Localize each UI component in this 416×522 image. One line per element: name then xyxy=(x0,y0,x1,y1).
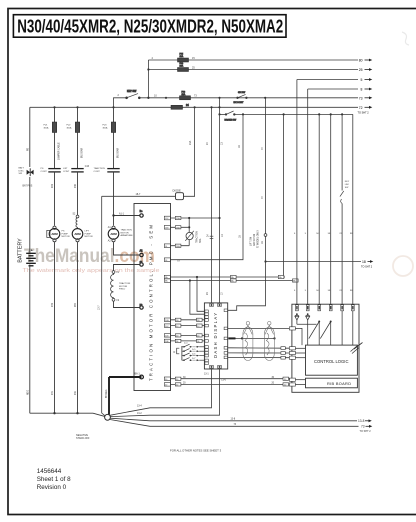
dash bottom pin 2 xyxy=(218,365,222,368)
transistor symbol pin3 xyxy=(309,321,320,346)
svg-text:6: 6 xyxy=(294,233,296,235)
PS pump motor terminal A1 xyxy=(53,226,56,229)
svg-text:LIFT: LIFT xyxy=(85,231,90,233)
svg-text:25: 25 xyxy=(192,67,195,70)
svg-text:10: 10 xyxy=(154,95,157,98)
svg-text:SX SW: SX SW xyxy=(238,92,246,94)
PS contactor tips xyxy=(48,169,60,172)
svg-text:13-2: 13-2 xyxy=(137,413,142,415)
pmc pin box 335 xyxy=(164,334,170,337)
svg-text:KEY: KEY xyxy=(345,181,350,183)
svg-text:18: 18 xyxy=(238,235,241,238)
junction dot bus col B bottom xyxy=(53,412,55,414)
thick shield bar xyxy=(228,337,235,339)
svg-text:300A: 300A xyxy=(44,126,49,129)
dash left pin 350 xyxy=(205,349,208,352)
diode D1 box xyxy=(176,193,184,200)
battery symbol xyxy=(26,253,36,265)
svg-text:DIODE: DIODE xyxy=(173,188,181,192)
label PS PUMP MOTOR xyxy=(62,231,71,239)
wire vertical x243 brake line to pmc lift sw pin xyxy=(171,114,244,259)
svg-text:ARMATURE: ARMATURE xyxy=(121,234,134,237)
svg-text:ARM: ARM xyxy=(51,232,58,236)
wire pin6 into logic xyxy=(352,311,354,345)
wire label box 280b xyxy=(293,279,299,282)
svg-text:TRACTION: TRACTION xyxy=(94,167,106,170)
wire vertical x265 key line down xyxy=(228,98,266,310)
wire label box 384a xyxy=(175,383,181,386)
svg-text:P22: P22 xyxy=(52,183,54,188)
assembly left pin 353 xyxy=(289,351,295,354)
arrow 73 xyxy=(359,96,373,100)
fan wire 13-2 to dash pin2 xyxy=(110,369,219,417)
assembly pin blob 3 xyxy=(319,306,321,309)
wire line 80 xyxy=(148,59,358,61)
fuse F3 on key line xyxy=(180,91,191,99)
pmc pin box 218 xyxy=(164,216,170,220)
svg-text:The watermark only appears on: The watermark only appears on the sample xyxy=(23,268,160,274)
svg-text:FOR ALL OTHER NOTES SEE SHEET: FOR ALL OTHER NOTES SEE SHEET 3 xyxy=(170,449,222,453)
junction dot B+ col D xyxy=(112,214,114,216)
wire pmc to rib 380 xyxy=(170,379,289,380)
label LIFT PUMP MOTOR xyxy=(85,231,94,239)
svg-text:PS: PS xyxy=(41,168,44,170)
column D wire to motor xyxy=(113,172,115,226)
wire vertical pin5 lower xyxy=(341,204,343,305)
column D wire to contactor xyxy=(113,133,115,169)
junction dot bus diode branch xyxy=(194,106,196,108)
svg-text:RIB BOARD: RIB BOARD xyxy=(327,381,351,386)
svg-text:72: 72 xyxy=(359,106,363,110)
pmc right pin row: wire 218 xyxy=(170,217,218,219)
svg-text:JUMPER CABLE: JUMPER CABLE xyxy=(58,142,61,160)
svg-text:18: 18 xyxy=(238,145,241,148)
diode symbol pin1 xyxy=(295,313,299,324)
svg-text:P60: P60 xyxy=(75,302,77,307)
break zigzag at logic edge xyxy=(351,343,363,352)
junction dot brake line x219 xyxy=(218,113,220,115)
assembly pin blob 2 xyxy=(307,306,309,309)
svg-text:18-7: 18-7 xyxy=(136,193,141,196)
svg-text:20D: 20D xyxy=(165,336,169,338)
wire dash right 357 xyxy=(228,356,290,358)
svg-text:D: D xyxy=(174,351,176,354)
svg-text:SW: SW xyxy=(19,173,23,175)
wire 280.5 xyxy=(170,280,298,282)
svg-text:B+: B+ xyxy=(140,211,144,213)
dash right pin 310 xyxy=(224,309,227,312)
pmc pin box 384 xyxy=(164,383,170,386)
arrow 8 xyxy=(361,88,373,92)
svg-text:13: 13 xyxy=(221,142,224,145)
wire key switch line xyxy=(114,98,127,108)
pmc terminal B- xyxy=(140,375,144,379)
connector circle on x265 wire xyxy=(264,234,267,237)
svg-text:BAT POS: BAT POS xyxy=(23,185,33,188)
wire label box 218 xyxy=(175,216,181,219)
svg-text:13: 13 xyxy=(221,234,224,237)
arrow 80 xyxy=(359,59,373,63)
lift contactor tips xyxy=(71,169,83,172)
wire label box 353c xyxy=(281,352,285,355)
svg-text:24: 24 xyxy=(207,292,209,295)
svg-text:MOTOR: MOTOR xyxy=(119,286,128,288)
junction dot shield line b xyxy=(273,337,275,339)
svg-text:TRACTION: TRACTION xyxy=(121,229,133,232)
wire label box 341a xyxy=(175,339,181,342)
thick B- wire horizontal xyxy=(109,376,142,378)
junction dot brake line x330 xyxy=(330,113,332,115)
lift pump motor xyxy=(72,229,83,240)
junction dot brake line x283 xyxy=(283,113,285,115)
wire vertical x211 bus to dash display xyxy=(211,107,213,303)
svg-text:C43: C43 xyxy=(85,166,90,168)
pmc pin box 280 xyxy=(164,279,170,282)
negative stand-off node xyxy=(105,414,111,420)
junction dot 280 branch xyxy=(189,279,191,281)
svg-text:MOTOR: MOTOR xyxy=(121,232,130,234)
twisted pair 2 drain Y xyxy=(265,325,274,334)
svg-text:ARM: ARM xyxy=(110,232,117,236)
svg-text:80: 80 xyxy=(359,59,363,63)
wire label box 384b xyxy=(283,383,289,386)
assembly pin blob 6 xyxy=(352,306,354,309)
PS pump motor brush box xyxy=(47,230,50,237)
dash left pin 317 xyxy=(205,316,208,319)
lift motor terminal S2 xyxy=(76,215,79,218)
wire pmc to dash 325 xyxy=(170,325,205,327)
label KEY LIM SW xyxy=(345,181,350,189)
svg-text:D-7: D-7 xyxy=(192,358,196,360)
dash switch 3 xyxy=(182,353,205,357)
pmc terminal B+ xyxy=(140,211,144,217)
diode link line xyxy=(297,323,317,325)
dash left pin 311 xyxy=(205,310,208,313)
dash switch rail xyxy=(181,346,183,360)
fuse F5 on line 80 xyxy=(178,54,189,62)
pmc pin box 245 xyxy=(164,244,170,248)
dash switch 1 xyxy=(182,344,205,348)
wire label box 277b xyxy=(278,275,284,278)
column B wire lower xyxy=(54,242,56,413)
wire label box 357c xyxy=(281,356,285,359)
svg-text:15: 15 xyxy=(192,57,195,60)
wire 277 xyxy=(170,276,283,278)
pmc pin box 259 xyxy=(164,258,170,262)
pmc terminal A2 xyxy=(140,250,144,257)
svg-text:24: 24 xyxy=(206,142,209,145)
svg-text:13-8: 13-8 xyxy=(231,419,236,421)
junction dot solenoid top xyxy=(188,217,190,219)
traction motor control PMC box xyxy=(134,204,171,391)
column C wire to contactor xyxy=(77,133,79,169)
label fuse D xyxy=(103,125,108,130)
svg-text:10A: 10A xyxy=(180,55,184,58)
junction dot key line x219 xyxy=(218,97,220,99)
assembly top pin 1 xyxy=(296,305,299,311)
dash right pin 338 xyxy=(224,337,227,340)
junction dot bus col D xyxy=(112,106,114,108)
svg-text:A1: A1 xyxy=(108,226,112,229)
svg-text:P31: P31 xyxy=(52,390,54,395)
fuse F4 on line 25 xyxy=(178,63,189,71)
wire S1 from PMC to field xyxy=(114,265,140,271)
svg-text:BATTERY: BATTERY xyxy=(18,238,24,263)
wire label box 341b xyxy=(197,339,203,342)
wire battery bus line 72 xyxy=(30,106,171,108)
svg-text:73: 73 xyxy=(361,425,365,429)
wire left pin 328 into logic xyxy=(295,328,302,345)
svg-text:24: 24 xyxy=(186,104,189,107)
svg-text:CONT: CONT xyxy=(63,171,70,173)
svg-text:B6-1: B6-1 xyxy=(135,372,141,375)
wire brake line after switch xyxy=(235,113,353,115)
fuse column C xyxy=(75,122,79,133)
assembly pin blob 4 xyxy=(330,306,332,309)
dash top pin 2 xyxy=(218,304,222,307)
junction dot shield line a xyxy=(241,337,243,339)
dash left pin 363 xyxy=(205,362,208,365)
twisted pair 2 inner strand xyxy=(266,333,269,355)
svg-text:N30/40/45XMR2, N25/30XMDR2, N5: N30/40/45XMR2, N25/30XMDR2, N50XMA2 xyxy=(17,16,283,36)
junction dot brake line x342 xyxy=(341,113,343,115)
wire 18 line to right arrow xyxy=(266,261,362,263)
svg-text:10A: 10A xyxy=(180,65,184,68)
svg-text:F2: F2 xyxy=(117,300,120,302)
battery disconnect switch xyxy=(27,168,34,176)
wire vertical pin5 upper from brake line xyxy=(341,114,343,190)
key switch xyxy=(126,90,141,99)
twisted pair 1 drain Y xyxy=(244,325,253,334)
dash bottom pin 1 xyxy=(210,365,214,368)
arrow 18 xyxy=(362,260,373,264)
dash left pin 335 xyxy=(205,334,208,337)
dash right pin 357 xyxy=(224,356,227,359)
twisted pair 1 inner strand xyxy=(245,333,248,355)
svg-text:73: 73 xyxy=(262,196,264,199)
watermark big text xyxy=(23,246,160,274)
junction dot bus col C xyxy=(76,106,78,108)
key lift switch xyxy=(340,191,344,204)
junction dot solenoid mid xyxy=(188,226,190,228)
svg-text:ARM: ARM xyxy=(74,232,81,236)
transistor symbol pin4 xyxy=(320,321,331,346)
lift motor terminal A2 xyxy=(76,239,79,242)
svg-text:13: 13 xyxy=(222,292,224,295)
dash pin blob top2 xyxy=(219,304,221,306)
control logic assembly outer box xyxy=(292,304,359,392)
svg-text:6: 6 xyxy=(294,290,296,292)
arrow 5 xyxy=(361,78,373,82)
svg-text:D-6: D-6 xyxy=(192,354,196,356)
svg-text:24: 24 xyxy=(206,234,209,237)
lift motor series coil xyxy=(76,218,78,229)
wire label box 335b xyxy=(197,334,203,337)
svg-text:PS: PS xyxy=(62,231,65,233)
seat switch on 73 line xyxy=(234,92,248,104)
svg-text:TO SHT 2: TO SHT 2 xyxy=(361,266,373,269)
fuse column B xyxy=(52,122,56,133)
column B wire to contactor xyxy=(54,133,56,169)
twisted pair 2 loop xyxy=(264,327,274,361)
wire vertical pin3 from brake line xyxy=(318,114,320,304)
svg-text:25: 25 xyxy=(359,68,363,72)
wire pmc 280 branch to dash pin 314 xyxy=(190,281,205,315)
dash left pin 341 xyxy=(205,340,208,343)
svg-text:5: 5 xyxy=(361,78,363,82)
svg-text:PUMP: PUMP xyxy=(85,233,92,235)
arrow 25 xyxy=(359,68,373,72)
wire dash right 353 xyxy=(228,352,290,354)
wire 245.5 xyxy=(170,245,189,247)
svg-text:5: 5 xyxy=(305,290,307,292)
traction contactor tips xyxy=(107,169,119,172)
svg-text:B6 NEG: B6 NEG xyxy=(106,389,108,398)
wire 13-7 vertical down to negative node xyxy=(102,196,106,416)
brake switch xyxy=(225,111,237,122)
wire pmc to dash 341 xyxy=(170,340,205,342)
field terminal F2 xyxy=(112,298,115,301)
dash pin blob top1 xyxy=(211,304,213,306)
svg-text:CONT: CONT xyxy=(41,171,48,173)
wire line 25 xyxy=(148,69,358,71)
junction dot bus x219 xyxy=(218,106,220,108)
pmc terminal F2 xyxy=(140,305,144,309)
pmc pin box 319 xyxy=(164,318,170,321)
svg-text:BUS BAR: BUS BAR xyxy=(117,148,120,158)
dash switch 4 xyxy=(182,358,205,362)
diode symbol pin2 xyxy=(306,313,310,345)
pmc pin box 341 xyxy=(164,339,170,342)
column A wire to battery xyxy=(29,177,31,253)
junction dot bus col B xyxy=(53,106,55,108)
wire label box 347c xyxy=(281,347,285,350)
solenoid arrow xyxy=(185,231,194,241)
assembly top pin 6 xyxy=(352,305,355,311)
svg-text:DX CONT: DX CONT xyxy=(234,102,245,104)
dash pin blob bottom1 xyxy=(211,366,213,368)
wire label box 320b xyxy=(197,318,203,321)
wire pmc 277 branch to dash pin 311 xyxy=(197,277,205,311)
traction motor armature xyxy=(108,229,119,240)
wire vertical x283 brake line to pmc pin line xyxy=(283,114,285,277)
wire left pin 384 into rib xyxy=(295,384,305,386)
wire vertical x219 key line to dash display xyxy=(219,98,221,303)
svg-text:BATT: BATT xyxy=(19,167,25,170)
svg-text:PUMP: PUMP xyxy=(62,233,69,235)
wire A2 to PMC xyxy=(114,242,140,255)
wire dash right 347 xyxy=(228,347,290,349)
svg-text:300A: 300A xyxy=(67,126,72,129)
svg-text:P32: P32 xyxy=(52,302,54,307)
svg-text:AIR SU SW: AIR SU SW xyxy=(253,233,256,246)
dash left pin 360 xyxy=(205,359,208,362)
svg-text:D-4: D-4 xyxy=(184,342,188,344)
svg-text:D-5: D-5 xyxy=(192,349,196,351)
rib board box xyxy=(306,378,358,388)
fuse column D xyxy=(111,122,115,133)
svg-text:FU3: FU3 xyxy=(103,125,108,127)
dash right pin 347 xyxy=(224,347,227,350)
column D wire upper xyxy=(113,107,115,122)
label fuse C xyxy=(67,125,72,130)
label PS CONT xyxy=(41,168,48,173)
column C wire to S2 xyxy=(77,172,79,215)
dash left pin 356 xyxy=(205,354,208,357)
svg-text:PB: PB xyxy=(28,147,30,151)
wire bus after fuse to right arrow 72 xyxy=(183,106,359,108)
wire vertical pin1 from line 5 xyxy=(296,80,298,305)
wire label box 325b xyxy=(197,324,203,327)
solenoid branch vertical xyxy=(188,218,190,232)
svg-text:P41: P41 xyxy=(75,390,77,395)
svg-text:2: 2 xyxy=(118,94,120,97)
PS pump motor xyxy=(49,229,60,240)
svg-text:A1-1: A1-1 xyxy=(119,212,125,215)
dash left pin 353 xyxy=(205,351,208,354)
svg-text:5: 5 xyxy=(305,233,307,235)
junction dot line2/feed xyxy=(147,68,149,70)
svg-text:300A: 300A xyxy=(103,126,108,129)
svg-text:TRACTION: TRACTION xyxy=(196,231,199,243)
wire dash right 338 shield line xyxy=(236,337,275,339)
svg-text:SOL: SOL xyxy=(200,238,202,243)
column C wire upper xyxy=(77,107,79,122)
wire left pin 353 into logic xyxy=(295,352,305,354)
dash top pin 1 xyxy=(210,304,214,307)
junction dot brake line x319 xyxy=(318,113,320,115)
pmc pin box 378 xyxy=(164,377,170,380)
title box xyxy=(13,15,286,38)
svg-text:FU2: FU2 xyxy=(67,125,72,127)
dash left pin 325 xyxy=(205,324,208,327)
column B wire upper xyxy=(54,107,56,122)
thick B- wire vertical xyxy=(108,377,110,415)
svg-text:+: + xyxy=(31,248,33,252)
wire left pin 357 into logic xyxy=(295,357,305,359)
wire key line after switch xyxy=(140,97,180,99)
svg-text:P40: P40 xyxy=(75,183,77,188)
wire label box 277a xyxy=(231,275,237,278)
svg-text:13-8: 13-8 xyxy=(358,419,365,423)
column B wire to motor xyxy=(54,172,56,226)
column C wire lower xyxy=(77,242,79,413)
junction dot 277 branch xyxy=(196,276,198,278)
assembly top pin 2 xyxy=(306,305,309,311)
svg-text:10A: 10A xyxy=(182,93,186,96)
pmc pin box 227 xyxy=(164,226,170,230)
svg-text:TO SHT 2: TO SHT 2 xyxy=(358,112,370,115)
junction dot bus x211 xyxy=(210,106,212,108)
pmc terminal S1 xyxy=(140,262,144,266)
wire key line to right arrow 73 xyxy=(191,97,359,99)
svg-text:13-7: 13-7 xyxy=(99,305,101,310)
wire pin5 into logic xyxy=(341,311,343,345)
wire F2 to PMC xyxy=(114,301,140,307)
traction motor terminal A2 xyxy=(112,239,115,242)
wire label box 320a xyxy=(175,318,181,321)
wire line 8 xyxy=(308,88,358,90)
svg-text:13-4: 13-4 xyxy=(137,406,142,408)
assembly left pin 357 xyxy=(289,356,295,359)
solenoid bottom stub xyxy=(188,240,190,246)
svg-text:73: 73 xyxy=(359,96,363,100)
assembly left pin 380 xyxy=(289,378,295,381)
svg-text:DASH DISPLAY: DASH DISPLAY xyxy=(213,313,218,358)
wire label box 378a xyxy=(175,377,181,380)
label TRACTION MOTOR FIELD xyxy=(119,282,131,291)
svg-text:FIELD: FIELD xyxy=(119,289,126,291)
